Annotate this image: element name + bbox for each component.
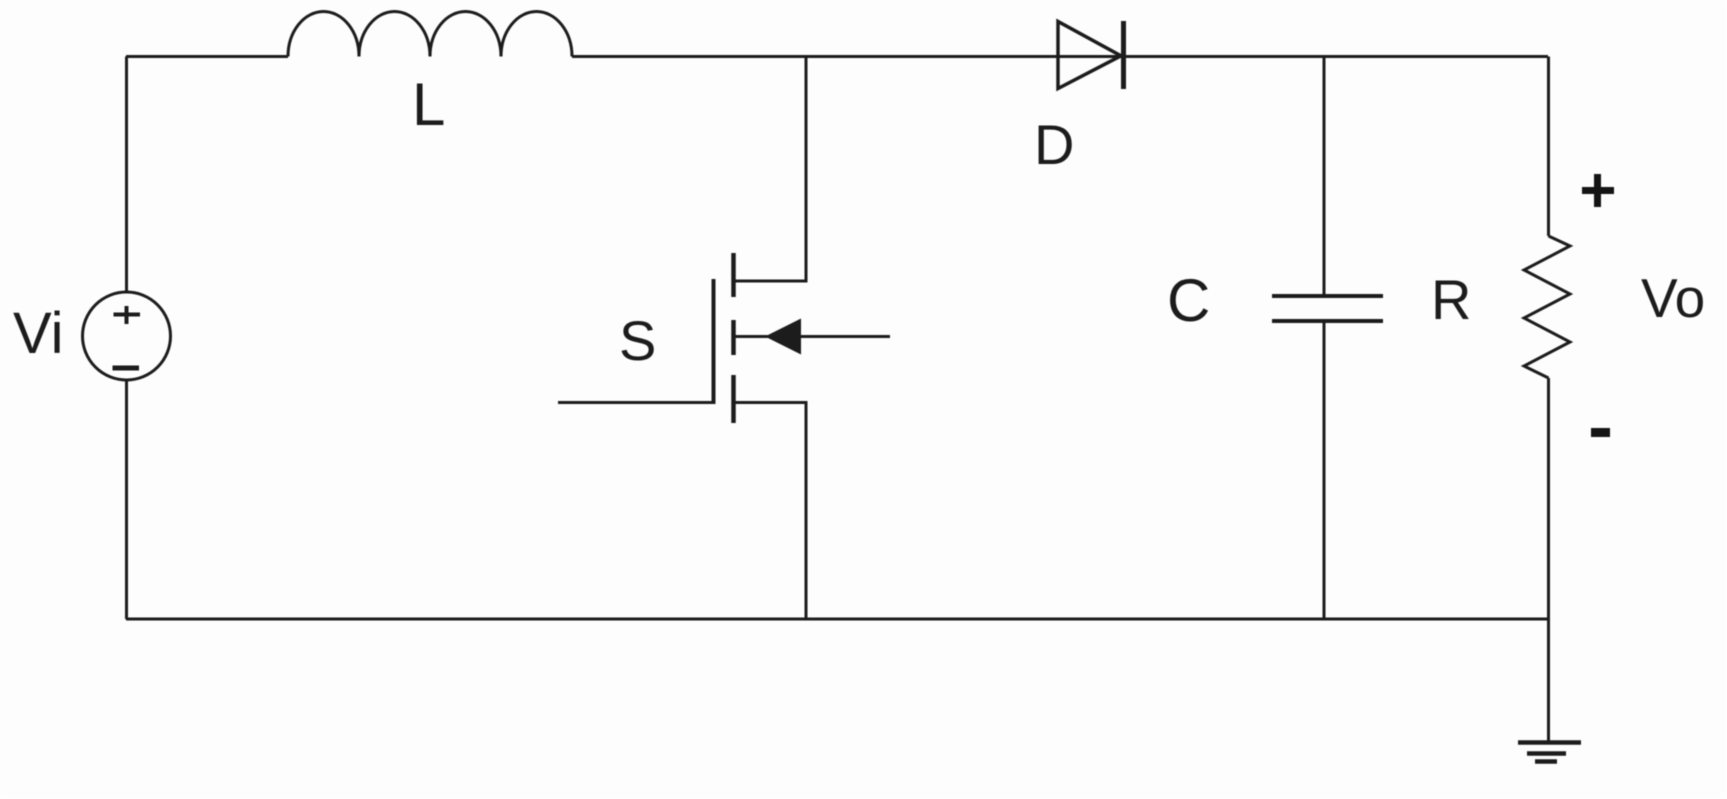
svg-text:Vo: Vo: [1641, 267, 1705, 329]
svg-text:D: D: [1034, 113, 1074, 176]
svg-text:Vi: Vi: [13, 301, 64, 366]
svg-text:C: C: [1167, 267, 1210, 334]
svg-text:L: L: [412, 71, 445, 138]
svg-text:S: S: [619, 309, 656, 372]
svg-text:R: R: [1431, 268, 1471, 331]
